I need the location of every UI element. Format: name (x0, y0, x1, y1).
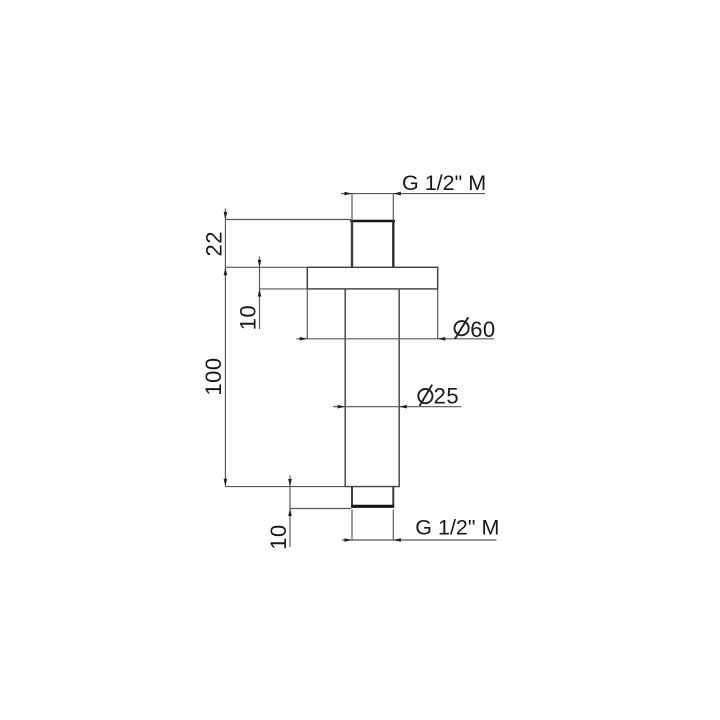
bottom thread connector right edge (392, 487, 394, 507)
Ø60 dimension line (y=338.8) (296, 338, 494, 340)
pipe bottom shoulder (345, 486, 400, 488)
bottom thread connector thick end face (351, 505, 394, 508)
arrow Ø25 left (right-pointing, tip at 345.2) (338, 405, 346, 409)
label Ø60 diameter symbol slash (455, 317, 468, 339)
flange body (Ø60) (307, 267, 437, 289)
label Ø60 diameter symbol circle (455, 321, 469, 335)
dimension 10b vertical line (289, 476, 291, 548)
top G 1/2 dimension line (y=193.6) (341, 193, 485, 195)
extension line below connector left (x=352) (351, 510, 353, 541)
dimension 22/100 shared vertical line (224, 209, 226, 487)
extension line connector bottom to 10b (y=508.5) (290, 508, 351, 510)
arrow dim22 bottom / dim100 top (up, tip at 267.6) (224, 268, 228, 276)
extension line at pipe bottom (y=486.6) (225, 486, 344, 488)
arrow dim22 top (down, tip at 219.5) (224, 212, 228, 220)
pipe right wall (398, 289, 400, 487)
arrow dim100 bottom (down, tip at 486.3) (224, 479, 228, 487)
top thread connector right edge (392, 220, 394, 267)
svg-text:25: 25 (434, 384, 459, 409)
arrow top G1/2 left (right-pointing, tip at 352) (344, 192, 352, 196)
arrow dim10b bottom (up, tip at 508.5) (288, 509, 292, 517)
arrow dim10a bottom (up, tip at 288.9) (258, 289, 262, 297)
extension line at flange top (y=267.3) (225, 266, 307, 268)
arrow Ø25 right (left-pointing, tip at 399.2) (399, 405, 407, 409)
arrow Ø60 right (left-pointing, tip at 437.7) (438, 337, 446, 341)
extension line flange bottom to 10a (y=288.9) (260, 288, 308, 290)
extension line above connector left (x=352) (351, 194, 353, 220)
extension line flange left down (306, 289, 308, 339)
extension line flange right down (437, 289, 439, 339)
arrow Ø60 left (right-pointing, tip at 307.3) (300, 337, 308, 341)
extension line at top of connector (y=219.5) (225, 219, 351, 221)
label Ø25 diameter symbol circle (418, 389, 432, 403)
Ø25 dimension line (y=406.7) (333, 406, 461, 408)
arrow top G1/2 right (left-pointing, tip at 393.3) (393, 192, 401, 196)
svg-text:10: 10 (266, 524, 291, 549)
top thread connector top edge (350, 220, 395, 223)
bottom thread connector left edge (351, 487, 353, 507)
arrow bottom G1/2 right (left-pointing, tip at 393.3) (393, 538, 401, 542)
label Ø25 diameter symbol slash (420, 385, 433, 406)
arrow dim10b top (down, tip at 486.6) (288, 479, 292, 487)
arrow dim10a top (down, tip at 267.3) (258, 260, 262, 268)
svg-text:60: 60 (470, 317, 495, 342)
bottom G 1/2 dimension line (y=540) (342, 539, 496, 541)
svg-text:10: 10 (236, 305, 261, 330)
top thread connector left edge (351, 220, 353, 267)
pipe left wall (344, 289, 346, 487)
svg-text:22: 22 (202, 231, 227, 256)
extension line above connector right (x=393.3) (392, 194, 394, 220)
svg-text:G 1/2" M: G 1/2" M (402, 171, 486, 195)
extension line below connector right (x=393.3) (392, 510, 394, 541)
arrow bottom G1/2 left (right-pointing, tip at 352) (344, 538, 352, 542)
dimension 10a vertical line (flange thickness) (259, 257, 261, 330)
svg-text:100: 100 (201, 357, 226, 395)
svg-text:G 1/2" M: G 1/2" M (415, 516, 499, 540)
